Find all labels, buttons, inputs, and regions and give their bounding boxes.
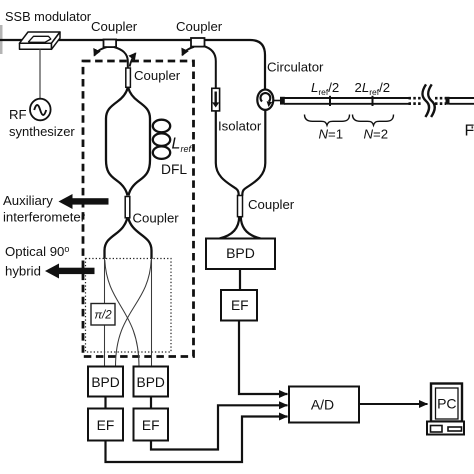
sensing fiber body bbox=[284, 98, 410, 104]
svg-text:synthesizer: synthesizer bbox=[9, 124, 75, 139]
wire: BPD I to EF I bbox=[104, 397, 106, 409]
wire: EF I to A/D (bottom input) bbox=[106, 417, 288, 463]
wire: aux loop left arm bbox=[106, 88, 128, 196]
svg-text:PC: PC bbox=[437, 396, 456, 412]
fiber dotted continuation (left of break) bbox=[409, 98, 423, 103]
fiber dotted continuation (right of break) bbox=[435, 98, 446, 103]
svg-text:Isolator: Isolator bbox=[218, 119, 262, 134]
fiber section tick 2 bbox=[372, 96, 374, 106]
aux output coupler bbox=[125, 197, 130, 218]
svg-text:BPD: BPD bbox=[137, 375, 165, 390]
BPD I (left) bbox=[88, 367, 123, 397]
wire: isolator down to coupler C3 bbox=[216, 111, 239, 196]
wire: aux loop right arm (through DFL) bbox=[128, 88, 150, 196]
wire: C3 fan-out to BPD bbox=[220, 217, 240, 239]
svg-text:A/D: A/D bbox=[311, 397, 334, 413]
SSB modulator bbox=[20, 32, 61, 49]
wire: C1 tap down to aux input coupler bbox=[114, 47, 128, 68]
DFL delay coil bbox=[153, 120, 170, 159]
coupler C1 bbox=[104, 40, 117, 48]
svg-text:Auxiliary: Auxiliary bbox=[3, 193, 53, 208]
svg-text:Coupler: Coupler bbox=[134, 68, 181, 83]
coupler C3 bbox=[238, 196, 243, 217]
wire: top fiber from SSB modulator to circulator bbox=[0, 40, 265, 91]
sensing fiber right body bbox=[450, 98, 474, 104]
svg-text:L: L bbox=[172, 136, 181, 153]
wire: hybrid fan-out from aux output coupler bbox=[105, 219, 128, 260]
cropped connector at left edge bbox=[0, 25, 3, 54]
dotted box: optical 90 hybrid bbox=[86, 259, 172, 353]
svg-text:ref: ref bbox=[181, 144, 193, 154]
svg-text:EF: EF bbox=[97, 418, 115, 433]
EF Q (right) bbox=[134, 409, 169, 441]
fiber break symbol bbox=[422, 84, 434, 117]
A/D converter bbox=[289, 387, 359, 423]
svg-text:Coupler: Coupler bbox=[248, 197, 295, 212]
fiber section tick 1 bbox=[329, 96, 331, 106]
wire: A/D to PC bbox=[359, 403, 428, 405]
EF I (left) bbox=[88, 409, 123, 441]
svg-text:Circulator: Circulator bbox=[267, 60, 324, 75]
pigtail with arrow at aux coupler unused port bbox=[130, 53, 136, 66]
wire: circulator down to coupler C3 bbox=[242, 110, 265, 196]
svg-text:Coupler: Coupler bbox=[91, 19, 138, 34]
svg-text:π/2: π/2 bbox=[94, 310, 112, 322]
wire: BPD Q to EF Q bbox=[150, 397, 152, 409]
svg-text:DFL: DFL bbox=[161, 162, 187, 177]
arrow: auxiliary interferometer pointer bbox=[59, 194, 109, 209]
svg-text:BPD: BPD bbox=[226, 245, 255, 261]
PC bbox=[427, 384, 464, 435]
wire: C2 tap down to isolator bbox=[204, 46, 216, 88]
svg-text:Coupler: Coupler bbox=[133, 211, 180, 226]
svg-text:F: F bbox=[465, 123, 474, 140]
wire: EF main to A/D (top input) bbox=[239, 321, 288, 395]
sensing fiber (FUT) left connector bbox=[280, 97, 285, 105]
pigtail with arrow at C2 unused port bbox=[182, 47, 194, 55]
coupler C2 bbox=[191, 38, 205, 47]
RF synthesizer bbox=[30, 99, 51, 121]
underbrace N=2 bbox=[353, 115, 394, 126]
hybrid internal fibers bbox=[105, 258, 152, 367]
svg-text:Optical 90o: Optical 90o bbox=[5, 244, 69, 259]
phase shifter pi/2 bbox=[91, 304, 115, 326]
isolator bbox=[212, 88, 220, 111]
wire: EF Q to A/D (middle input) bbox=[151, 405, 288, 449]
svg-text:SSB modulator: SSB modulator bbox=[5, 9, 92, 24]
pigtail with arrow at C1 unused port bbox=[94, 47, 106, 55]
BPD Q (right) bbox=[134, 367, 169, 397]
svg-text:EF: EF bbox=[231, 298, 249, 313]
svg-text:BPD: BPD bbox=[91, 375, 119, 390]
BPD main bbox=[206, 239, 275, 270]
wire: RF feed to modulator bbox=[39, 49, 41, 99]
EF main bbox=[221, 290, 257, 321]
wire: circulator to sensing fiber bbox=[273, 100, 280, 102]
wire: BPD main to EF main bbox=[239, 269, 241, 290]
arrow: optical hybrid pointer bbox=[45, 264, 95, 279]
svg-text:EF: EF bbox=[142, 418, 160, 433]
underbrace N=1 bbox=[305, 115, 350, 126]
svg-text:hybrid: hybrid bbox=[5, 264, 41, 279]
svg-text:Coupler: Coupler bbox=[176, 19, 223, 34]
dashed box: auxiliary interferometer bbox=[83, 61, 194, 357]
circulator bbox=[257, 90, 273, 110]
svg-text:interferometer: interferometer bbox=[3, 210, 86, 225]
aux input coupler bbox=[126, 68, 131, 87]
svg-text:N=1: N=1 bbox=[319, 127, 344, 142]
sensing fiber right connector bbox=[446, 97, 450, 105]
svg-text:RF: RF bbox=[9, 107, 27, 122]
svg-text:N=2: N=2 bbox=[364, 127, 389, 142]
